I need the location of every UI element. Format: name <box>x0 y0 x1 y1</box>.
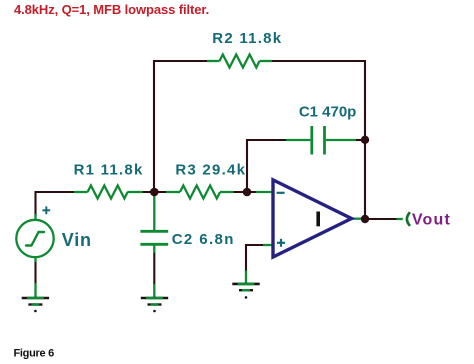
svg-text:Vin: Vin <box>62 230 92 250</box>
svg-text:C1 470p: C1 470p <box>299 103 357 120</box>
svg-text:Vout: Vout <box>412 212 451 229</box>
svg-text:R3 29.4k: R3 29.4k <box>175 162 246 179</box>
svg-text:R2 11.8k: R2 11.8k <box>212 30 282 47</box>
svg-text:R1 11.8k: R1 11.8k <box>74 162 144 179</box>
svg-text:4.8kHz, Q=1, MFB lowpass filte: 4.8kHz, Q=1, MFB lowpass filter. <box>14 2 209 17</box>
svg-text:Figure 6: Figure 6 <box>14 348 55 360</box>
svg-text:C2 6.8n: C2 6.8n <box>172 231 235 248</box>
